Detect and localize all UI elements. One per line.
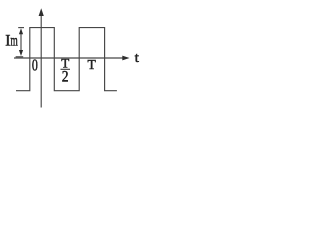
dimension arrow Im: down arrowhead [19,50,23,56]
dimension arrow Im: shaft [20,31,22,53]
dimension arrow Im: up arrowhead [19,28,23,34]
y-axis arrowhead [39,8,44,16]
t-axis [14,57,124,59]
t-axis arrowhead [122,56,129,61]
svg-text:t: t [135,50,139,65]
svg-text:0: 0 [32,55,38,74]
dimension arrow Im: top cap [18,27,24,29]
svg-text:T: T [88,57,96,72]
dimension arrow Im: bottom cap [16,56,24,58]
svg-text:2: 2 [62,68,69,85]
square wave [16,28,117,91]
y-axis [40,15,42,108]
label T/2: fraction bar [61,68,71,70]
svg-text:m: m [10,33,17,50]
